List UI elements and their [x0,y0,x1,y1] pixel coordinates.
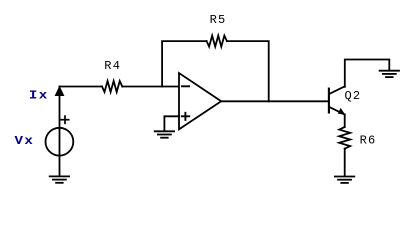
wire [60,86,103,88]
ground [380,71,399,77]
wire [344,115,346,128]
resistor R4 [102,81,122,92]
wire [164,116,179,130]
wire [162,41,207,86]
resistor R5 [207,36,227,47]
wire [59,87,61,176]
wire [227,41,269,101]
wire [221,100,329,102]
ground [155,131,174,137]
wire [344,149,346,176]
wire [345,60,390,87]
svg-text:R4: R4 [104,59,121,73]
svg-text:Q2: Q2 [345,89,362,103]
voltage source Vx [46,128,74,156]
svg-text:Ix: Ix [29,89,49,103]
wire [122,86,179,88]
svg-text:R5: R5 [210,13,227,27]
op-amp U1 [179,73,221,129]
svg-text:Vx: Vx [15,134,35,148]
svg-text:R6: R6 [360,133,377,147]
current arrow Ix (node) [55,86,65,96]
resistor R6 [339,127,350,149]
transistor Q2 [329,86,345,114]
ground [50,176,69,182]
ground [335,177,354,183]
